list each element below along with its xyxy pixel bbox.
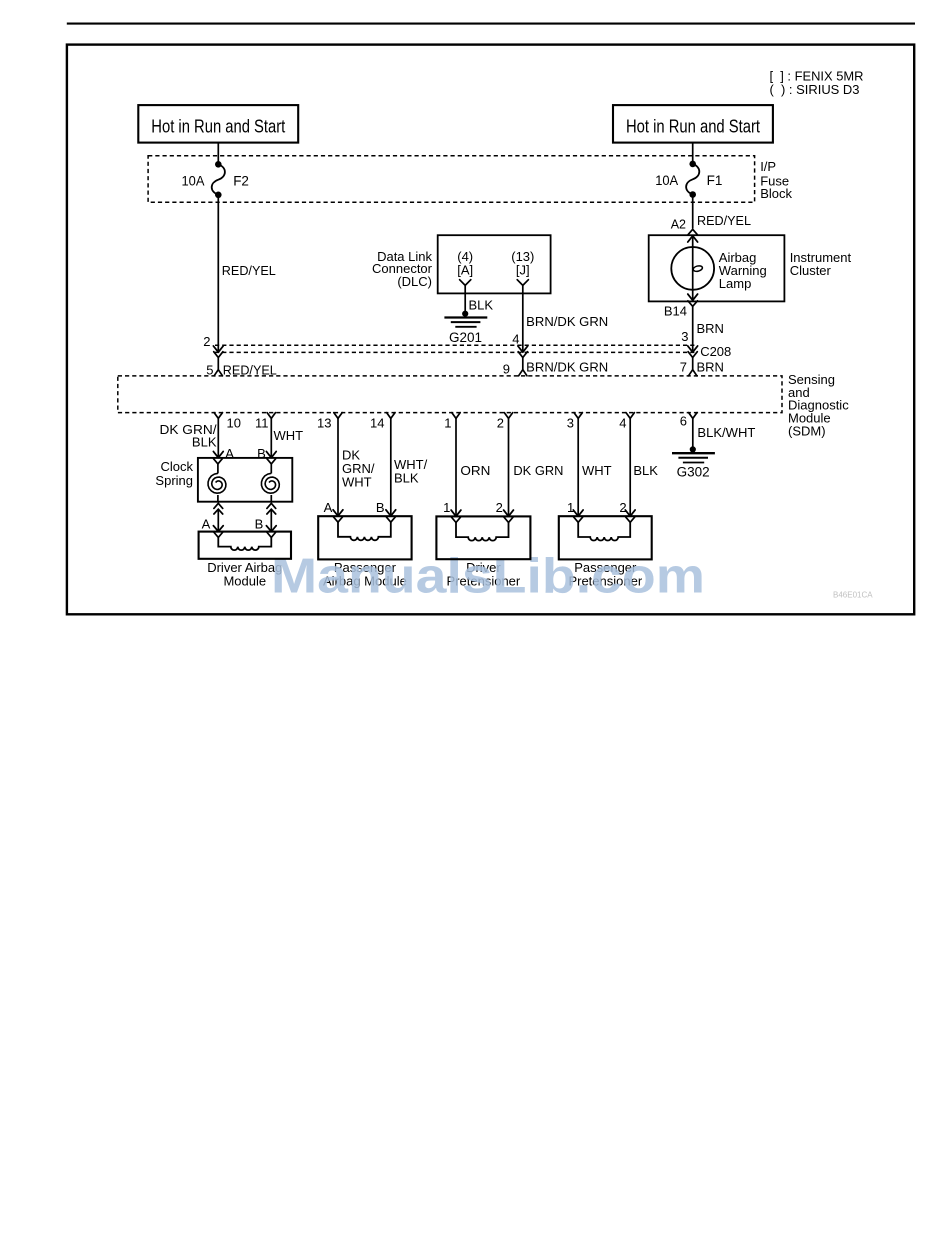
pin 9 into SDM, wire BRN/DK GRN — [518, 352, 527, 358]
svg-text:ORN: ORN — [460, 463, 490, 478]
svg-text:A: A — [202, 517, 211, 532]
svg-text:Cluster: Cluster — [790, 263, 832, 278]
clock spring coil A — [214, 459, 223, 464]
wire BLK/WHT (pin 6) to G302 — [692, 418, 694, 449]
sensing and diagnostic module SDM (dashed) — [118, 376, 782, 413]
svg-text:WHT: WHT — [274, 428, 304, 443]
SDM pin 14 — [387, 413, 395, 419]
svg-text:[A]: [A] — [457, 263, 473, 278]
wire WHT (pin 11) — [270, 418, 272, 456]
fuse F1 10A — [689, 161, 696, 168]
svg-text:10: 10 — [227, 415, 241, 430]
svg-text:A2: A2 — [671, 218, 686, 232]
svg-text:9: 9 — [503, 362, 510, 377]
passenger airbag module — [333, 510, 343, 516]
page top rule — [67, 23, 915, 25]
svg-text:C208: C208 — [700, 344, 731, 359]
clock spring — [213, 452, 223, 458]
svg-text:G201: G201 — [449, 330, 482, 345]
svg-text:BLK: BLK — [192, 435, 217, 450]
wire BRN/DK GRN from DLC pin J to C208 — [522, 293, 524, 351]
svg-text:2: 2 — [203, 334, 210, 349]
svg-text:4: 4 — [619, 415, 626, 430]
svg-text:Hot in Run and Start: Hot in Run and Start — [626, 117, 760, 137]
svg-text:DK GRN: DK GRN — [513, 463, 563, 478]
I/P fuse block (dashed) — [148, 156, 755, 203]
pin 7 into SDM, wire BRN — [688, 352, 697, 358]
passenger pretensioner — [573, 510, 583, 516]
ground G302 — [690, 446, 696, 452]
wire BLK (pin 4) — [629, 418, 631, 515]
fuse F2 10A — [215, 161, 222, 168]
wire ORN (pin 1) — [455, 418, 457, 515]
svg-text:G302: G302 — [677, 465, 710, 480]
svg-text:B14: B14 — [664, 304, 687, 319]
svg-text:5: 5 — [206, 362, 213, 377]
SDM pin 2 — [504, 413, 512, 419]
SDM pin 4 — [626, 413, 634, 419]
svg-text:BRN: BRN — [697, 360, 724, 375]
svg-text:Spring: Spring — [155, 473, 193, 488]
driver pretensioner — [451, 510, 461, 516]
svg-text:F2: F2 — [233, 174, 249, 189]
svg-text:Clock: Clock — [160, 459, 193, 474]
svg-text:BLK: BLK — [633, 463, 658, 478]
svg-text:(SDM): (SDM) — [788, 424, 826, 439]
svg-text:WHT: WHT — [342, 475, 372, 490]
wire DK GRN (pin 2) — [508, 418, 510, 515]
svg-text:3: 3 — [681, 329, 688, 344]
svg-text:BLK: BLK — [394, 471, 419, 486]
svg-text:RED/YEL: RED/YEL — [697, 213, 751, 228]
svg-text:2: 2 — [497, 415, 504, 430]
svg-text:1: 1 — [443, 500, 450, 515]
wire RED/YEL from F2 to C208 — [217, 195, 219, 351]
ground G201 — [462, 311, 468, 317]
svg-text:[J]: [J] — [516, 263, 530, 278]
pin 5 into SDM, wire RED/YEL — [214, 352, 223, 358]
svg-text:1: 1 — [567, 500, 574, 515]
svg-text:2: 2 — [619, 500, 626, 515]
driver airbag module — [199, 532, 291, 559]
SDM pin 10 — [214, 413, 222, 419]
pin B14 — [688, 301, 698, 307]
svg-text:Block: Block — [760, 186, 792, 201]
instrument cluster — [649, 235, 785, 301]
svg-text:3: 3 — [567, 415, 574, 430]
svg-text:Lamp: Lamp — [719, 276, 752, 291]
svg-text:14: 14 — [370, 415, 384, 430]
svg-text:(DLC): (DLC) — [397, 274, 432, 289]
svg-text:13: 13 — [317, 415, 331, 430]
node: Hot in Run and Start (left) — [138, 105, 298, 143]
wire WHT (pin 3) — [577, 418, 579, 515]
svg-text:BLK/WHT: BLK/WHT — [697, 425, 755, 440]
SDM pin 3 — [574, 413, 582, 419]
svg-text:F1: F1 — [707, 173, 723, 188]
data link connector (DLC) — [438, 235, 551, 293]
wires clock spring to driver airbag module — [214, 503, 223, 508]
svg-text:BRN/DK GRN: BRN/DK GRN — [526, 314, 608, 329]
svg-text:B: B — [376, 500, 385, 515]
airbag warning lamp — [688, 236, 698, 242]
svg-text:ManualsLib.com: ManualsLib.com — [271, 550, 705, 604]
svg-text:BRN: BRN — [697, 321, 724, 336]
SDM pin 11 — [267, 413, 275, 419]
svg-text:B46E01CA: B46E01CA — [833, 591, 873, 600]
wire: hot feed to F2 — [217, 143, 219, 165]
SDM pin 1 — [452, 413, 460, 419]
svg-text:[ ] : FENIX 5MR: [ ] : FENIX 5MR — [770, 69, 864, 83]
SDM pin 13 — [334, 413, 342, 419]
connector C208 (dashed pair) — [215, 344, 695, 346]
wire: hot feed to F1 — [692, 143, 694, 164]
svg-text:11: 11 — [255, 415, 269, 430]
svg-text:B: B — [255, 517, 264, 532]
wire BLK from DLC to G201 — [464, 293, 466, 313]
svg-text:6: 6 — [680, 414, 687, 429]
svg-text:BLK: BLK — [469, 298, 494, 313]
SDM pin 6 — [689, 413, 697, 419]
clock spring coil B — [267, 459, 276, 464]
svg-text:I/P: I/P — [760, 159, 776, 174]
wire WHT/BLK (pin 14) — [390, 418, 392, 515]
svg-text:WHT: WHT — [582, 463, 612, 478]
svg-text:7: 7 — [680, 359, 687, 374]
svg-text:Module: Module — [223, 574, 266, 589]
svg-text:RED/YEL: RED/YEL — [222, 263, 276, 278]
svg-text:A: A — [324, 500, 333, 515]
svg-text:2: 2 — [496, 500, 503, 515]
node: Hot in Run and Start (right) — [613, 105, 773, 143]
wire DK GRN/WHT (pin 13) — [337, 418, 339, 515]
wire DK GRN/BLK (pin 10) — [217, 418, 219, 456]
wire BRN from cluster to C208 — [692, 306, 694, 351]
svg-text:Hot in Run and Start: Hot in Run and Start — [151, 117, 285, 137]
svg-text:1: 1 — [444, 415, 451, 430]
svg-text:4: 4 — [512, 332, 519, 347]
svg-text:10A: 10A — [182, 174, 205, 189]
svg-text:BRN/DK GRN: BRN/DK GRN — [526, 360, 608, 375]
svg-text:10A: 10A — [655, 173, 678, 188]
wire RED/YEL from F1 to instrument cluster — [692, 195, 694, 229]
svg-text:( ) : SIRIUS D3: ( ) : SIRIUS D3 — [770, 83, 860, 97]
